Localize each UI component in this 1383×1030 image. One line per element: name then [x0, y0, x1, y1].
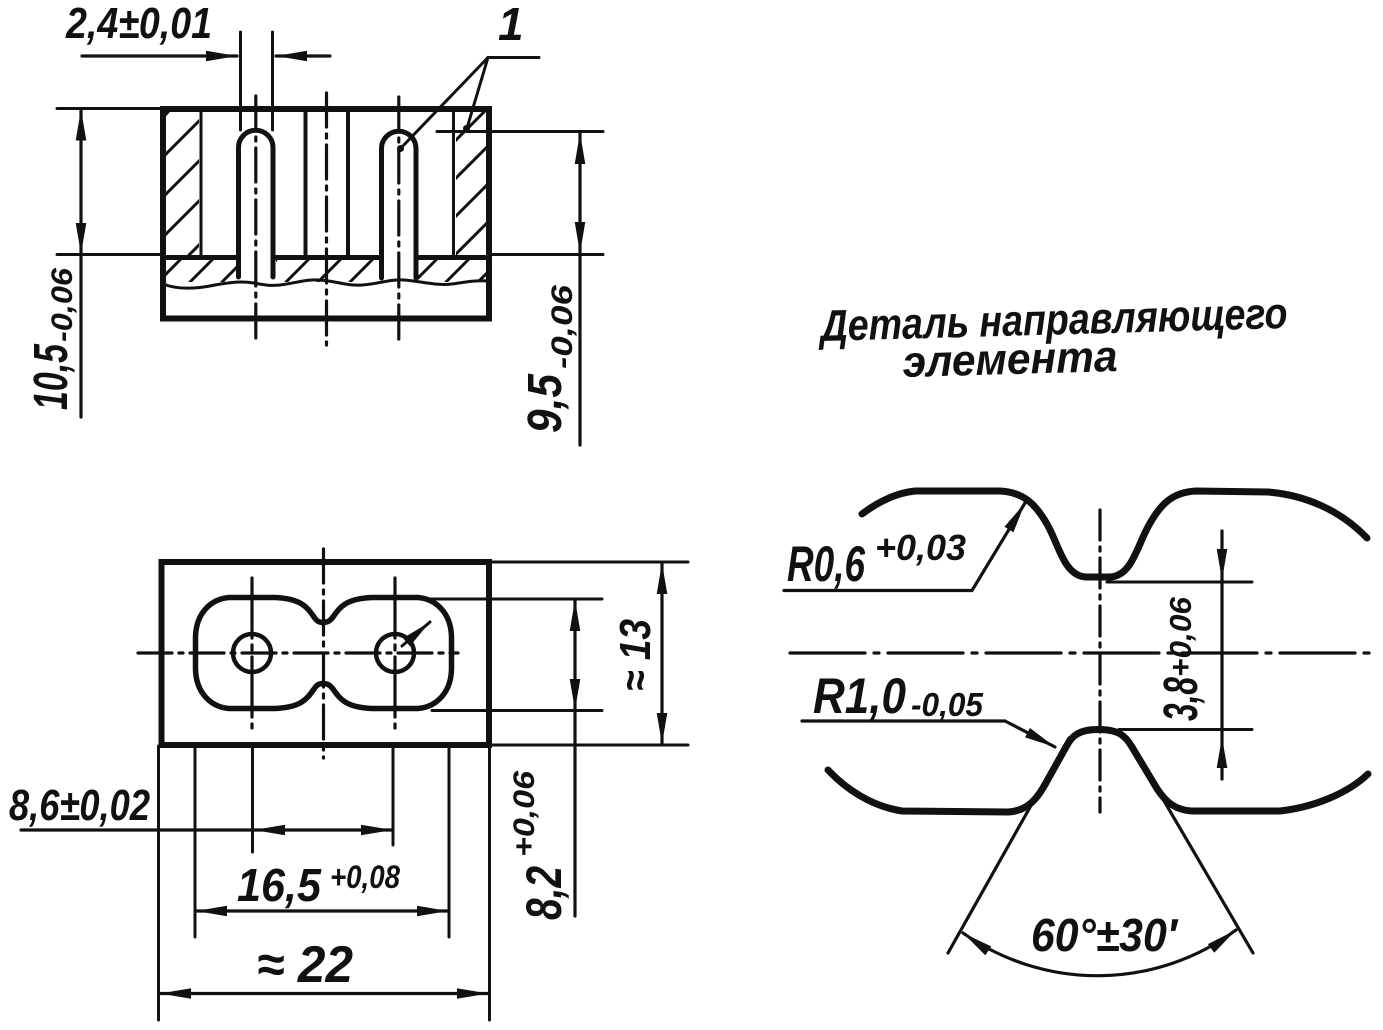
centerline slot left	[254, 96, 257, 340]
leader R1,0	[802, 719, 1005, 722]
slot right (groove section)	[382, 131, 417, 278]
svg-text:R1,0: R1,0	[813, 668, 906, 724]
svg-text:-0,06: -0,06	[46, 268, 79, 342]
dim 3,8 top arrow	[1220, 531, 1223, 580]
svg-text:10,5: 10,5	[25, 343, 78, 410]
central column right edge	[346, 112, 350, 256]
dim 3,8 bottom arrow	[1220, 737, 1223, 779]
dim 9,5 line	[578, 133, 581, 253]
dim 9,5 overrun	[578, 253, 581, 445]
angle dim right flank line	[1136, 753, 1253, 953]
svg-text:элемента: элемента	[902, 332, 1118, 387]
extension hole right down	[392, 746, 395, 845]
body outline rect	[163, 109, 489, 319]
dim 9,5 top extension	[437, 130, 603, 133]
wavy break line	[163, 280, 488, 288]
leader dot on wall	[463, 125, 470, 132]
dim 9,5 bottom extension	[489, 253, 603, 256]
angle dim left flank line	[948, 738, 1069, 953]
centerline vertical middle	[322, 549, 325, 758]
hatch right wall	[341, 112, 633, 255]
leader R0,6	[784, 589, 972, 592]
svg-text:60°±30′: 60°±30′	[1031, 909, 1179, 961]
body outline rect	[162, 562, 490, 745]
dim 16,5 line	[196, 909, 448, 912]
angle dim arc	[963, 930, 1236, 976]
dim 3,8 connecting line	[1220, 582, 1223, 737]
dim 8,6 overrun	[21, 828, 254, 831]
svg-text:-0,05: -0,05	[911, 686, 984, 723]
svg-text:-0,06: -0,06	[546, 285, 579, 369]
left wall inner edge	[200, 112, 203, 257]
svg-text:≈ 13: ≈ 13	[611, 619, 660, 691]
extension left edge down	[157, 746, 160, 1020]
dim 8,2 overrun	[573, 710, 576, 916]
centerline horizontal	[790, 651, 1378, 654]
dim 22 line	[160, 992, 488, 995]
dim 3,8 top extension	[1107, 581, 1252, 584]
svg-text:1: 1	[498, 0, 524, 50]
svg-text:3,8: 3,8	[1155, 677, 1208, 721]
svg-text:≈ 22: ≈ 22	[257, 936, 353, 994]
centerline hole left	[250, 578, 253, 728]
central column left edge	[304, 112, 308, 256]
svg-text:8,6±0,02: 8,6±0,02	[9, 781, 150, 830]
dim 13 line	[660, 563, 663, 744]
leader R1,0 arrow	[1005, 721, 1055, 747]
dim 8,2 line	[573, 600, 576, 710]
hole right	[376, 634, 414, 672]
dim 8,2 bottom extension	[432, 709, 602, 712]
svg-text:+0,03: +0,03	[875, 527, 966, 568]
leader R0,6 arrow	[972, 503, 1025, 591]
leader dot on slot	[397, 145, 404, 152]
hole left	[233, 634, 271, 672]
svg-text:9,5: 9,5	[519, 373, 572, 433]
hatch left wall	[25, 112, 372, 255]
svg-text:+0,08: +0,08	[330, 859, 400, 895]
extension right edge down	[488, 746, 491, 1020]
slot left (groove section)	[239, 130, 274, 277]
extension lines dim 2,4	[241, 32, 273, 130]
right wall inner edge	[452, 112, 455, 257]
svg-text:+0,06: +0,06	[1163, 596, 1198, 677]
dim 8,6 line	[254, 828, 392, 831]
centerline slot right	[397, 97, 400, 341]
top edge extension	[489, 561, 688, 564]
svg-text:R0,6: R0,6	[787, 536, 866, 592]
dumbbell cutout	[196, 598, 452, 709]
extension dumbbell left down	[194, 746, 197, 937]
extension line bottom left	[57, 253, 163, 256]
dim 10,5 overrun	[79, 254, 82, 417]
centerline horizontal	[138, 651, 458, 654]
centerline hole right	[393, 578, 396, 728]
lower profile curve	[828, 730, 1368, 813]
svg-text:2,4±0,01: 2,4±0,01	[65, 0, 212, 48]
svg-text:8,2: 8,2	[516, 866, 572, 920]
extension dumbbell right down	[448, 746, 451, 937]
svg-text:16,5: 16,5	[237, 859, 322, 911]
dim 8,2 top extension	[420, 598, 602, 601]
centerline middle	[325, 93, 328, 345]
extension hole left down	[251, 746, 254, 852]
dim 10,5 line	[79, 110, 82, 255]
dim 3,8 bottom extension	[1119, 728, 1252, 731]
svg-text:+0,06: +0,06	[508, 771, 541, 857]
lobe radius arrow	[402, 622, 430, 646]
centerline vertical	[1098, 510, 1101, 812]
hatch floor band	[158, 260, 500, 282]
bottom edge extension	[489, 744, 688, 747]
floor line segments	[164, 255, 487, 260]
wire top edge extension line	[57, 107, 163, 110]
leader callout 1	[400, 58, 539, 150]
dim line 2,4 right	[276, 54, 330, 57]
dim line 2,4 left	[82, 54, 237, 57]
upper profile curve	[862, 491, 1367, 577]
